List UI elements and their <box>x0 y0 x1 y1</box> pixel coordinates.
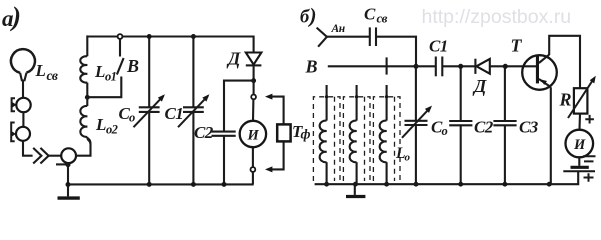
collector wire up and right to R <box>549 36 580 88</box>
svg-text:C3: C3 <box>519 118 539 137</box>
switch bottom wire <box>89 77 121 98</box>
svg-text:R: R <box>559 90 572 110</box>
junction dot <box>414 64 419 69</box>
capacitor C1 (b) <box>435 57 437 77</box>
cap C3 (b) wire top <box>504 66 506 121</box>
svg-text:L: L <box>94 62 105 81</box>
svg-text:Т: Т <box>511 36 523 56</box>
wire X3 to coil bottom <box>76 138 91 155</box>
switch top wire <box>119 39 121 57</box>
ground <box>67 185 69 197</box>
polarity marks <box>583 156 596 161</box>
svg-text:о2: о2 <box>106 123 118 137</box>
meter I <box>240 121 266 147</box>
junction dot <box>191 182 196 187</box>
wire X3 to ground bus <box>67 163 69 184</box>
diode branch wire <box>253 37 254 53</box>
wire antenna to C_sv <box>327 36 370 38</box>
switch blade <box>117 58 124 75</box>
diode D (b) <box>476 59 489 74</box>
svg-text:св: св <box>377 11 388 26</box>
wire diode to base <box>490 65 537 67</box>
coil 1 bottom wire <box>326 162 328 184</box>
plug arrow into X1 <box>12 98 15 111</box>
wire L_o1 to junction <box>86 83 88 98</box>
wire X1 to X2 <box>22 112 24 127</box>
coil unit 2 shield box <box>343 97 370 181</box>
junction dot at bus <box>66 182 71 187</box>
arrow of variable cap C1 <box>178 96 208 127</box>
capacitor C1 <box>183 106 204 108</box>
svg-text:C1: C1 <box>429 37 448 56</box>
bottom bus wire (circuit a) <box>68 183 254 185</box>
wire to jack X3 <box>49 155 62 157</box>
junction dot <box>251 78 256 83</box>
B line wire <box>328 65 436 67</box>
terminal circle <box>251 167 256 172</box>
emitter line with arrow <box>539 79 551 87</box>
cap Co wire top <box>148 37 150 108</box>
svg-text:L: L <box>35 61 46 80</box>
capacitor Co <box>139 106 160 108</box>
junction dot <box>502 182 507 187</box>
svg-text:C2: C2 <box>194 123 214 142</box>
coil 1 <box>320 121 327 163</box>
svg-text:И: И <box>247 128 260 144</box>
antenna loop L_sv <box>11 49 35 73</box>
coil unit 3 shield box <box>373 97 400 181</box>
svg-text:о: о <box>442 124 448 138</box>
battery short electrode <box>571 166 589 169</box>
svg-text:о: о <box>129 111 135 125</box>
arrow of variable cap Co <box>134 96 164 127</box>
cap C1 wire top <box>192 37 194 108</box>
wire C1 to diode <box>442 65 475 67</box>
wire below meter <box>252 147 254 167</box>
capacitor Co (b) <box>405 120 428 122</box>
wire junction to L_o2 <box>86 97 88 106</box>
contact tick at X3 <box>56 163 68 165</box>
capacitor C_sv <box>369 27 371 46</box>
coil 2 <box>350 121 357 163</box>
emitter wire down <box>550 87 552 184</box>
wire X2 down and right <box>23 141 33 156</box>
svg-text:о1: о1 <box>105 70 116 84</box>
coil 3 bottom wire <box>386 162 388 184</box>
junction dot <box>458 182 463 187</box>
wire R to meter <box>578 114 581 130</box>
terminal circle <box>251 95 256 100</box>
capacitor C2 (b) <box>449 120 472 122</box>
bottom bus wire (circuit b) <box>315 171 579 184</box>
capacitor C2 <box>212 131 236 133</box>
plus sign lower <box>584 173 594 182</box>
arrow to bottom terminal <box>265 166 272 172</box>
telephone Tf branch <box>271 97 284 170</box>
cap Co wire (b) <box>415 66 417 121</box>
svg-text:В: В <box>126 56 139 76</box>
svg-text:о: о <box>405 152 411 164</box>
arrow of variable R <box>568 78 594 118</box>
cap Co wire bottom <box>148 112 150 184</box>
wire to meter <box>252 99 254 121</box>
meter I (b) <box>566 130 594 158</box>
battery long electrode <box>563 170 595 172</box>
cap C2 branch wire <box>224 81 254 132</box>
coil L_o1 <box>80 56 87 83</box>
cap C3 (b) wire bottom <box>504 125 506 184</box>
ground (b) <box>354 184 356 195</box>
svg-text:Д: Д <box>472 76 487 96</box>
arrow of variable cap Co (b) <box>402 107 431 138</box>
cap C2 (b) wire top <box>460 66 462 121</box>
antenna An <box>317 28 327 47</box>
svg-text:ф: ф <box>301 128 311 143</box>
coil branch top wire <box>86 35 88 56</box>
cap C2 wire bottom <box>223 136 225 185</box>
junction dot <box>147 182 152 187</box>
junction dot <box>191 34 196 39</box>
cap C2 (b) wire bottom <box>460 125 462 184</box>
junction dot <box>147 34 152 39</box>
top wire (circuit a) <box>87 35 253 37</box>
meter branch wire top <box>253 81 255 95</box>
plus sign upper <box>585 115 594 124</box>
resistor R <box>574 88 588 113</box>
svg-text:И: И <box>573 137 586 153</box>
svg-text:L: L <box>95 115 106 134</box>
junction dot <box>85 95 90 100</box>
coil 2 lead <box>356 85 358 121</box>
cap C1 wire bottom <box>192 112 194 184</box>
coil unit 1 shield box <box>313 97 340 181</box>
diode D <box>246 53 262 65</box>
svg-text:C1: C1 <box>165 104 184 123</box>
wire L_o2 bottom hook <box>87 137 90 144</box>
collector line <box>539 55 549 63</box>
svg-text:Д: Д <box>226 49 241 69</box>
diode to junction wire <box>253 65 255 80</box>
coil L_o2 <box>80 106 87 137</box>
coil 2 bottom wire <box>356 162 358 184</box>
switch terminal circle <box>118 34 123 39</box>
wire to bus <box>252 172 254 185</box>
svg-text:): ) <box>308 3 316 27</box>
svg-text:Ан: Ан <box>331 23 346 35</box>
cap Co (b) wire bottom <box>415 125 417 184</box>
coil 3 L_o <box>380 121 387 163</box>
wire meter to battery <box>578 157 580 166</box>
jack socket X1 <box>16 98 30 112</box>
svg-text:св: св <box>47 68 58 83</box>
svg-text:http://zpostbox.ru: http://zpostbox.ru <box>422 6 572 28</box>
svg-text:C2: C2 <box>474 118 494 137</box>
junction dot <box>458 64 463 69</box>
junction dot below X3 <box>66 162 71 167</box>
junction dot <box>222 182 227 187</box>
svg-text:C: C <box>364 5 376 24</box>
wire antenna to jack X1 <box>22 80 24 99</box>
wire C_sv to corner down to B line <box>376 37 416 67</box>
coil 3 lead <box>386 85 388 121</box>
svg-text:В: В <box>305 57 318 77</box>
arrow to top terminal <box>265 94 272 100</box>
telephone Tf box <box>277 124 290 141</box>
svg-text:б: б <box>300 8 310 28</box>
svg-text:L: L <box>395 145 405 162</box>
transistor T <box>522 55 557 90</box>
plug connector chevrons <box>33 148 41 164</box>
tap tick crossing B line <box>386 57 388 74</box>
jack socket X2 <box>16 127 30 141</box>
coil 1 lead <box>326 85 328 121</box>
jack socket X3 <box>61 148 76 163</box>
capacitor C3 (b) <box>493 120 516 122</box>
plug arrow into X2 <box>11 123 15 142</box>
junction dot <box>503 64 508 69</box>
